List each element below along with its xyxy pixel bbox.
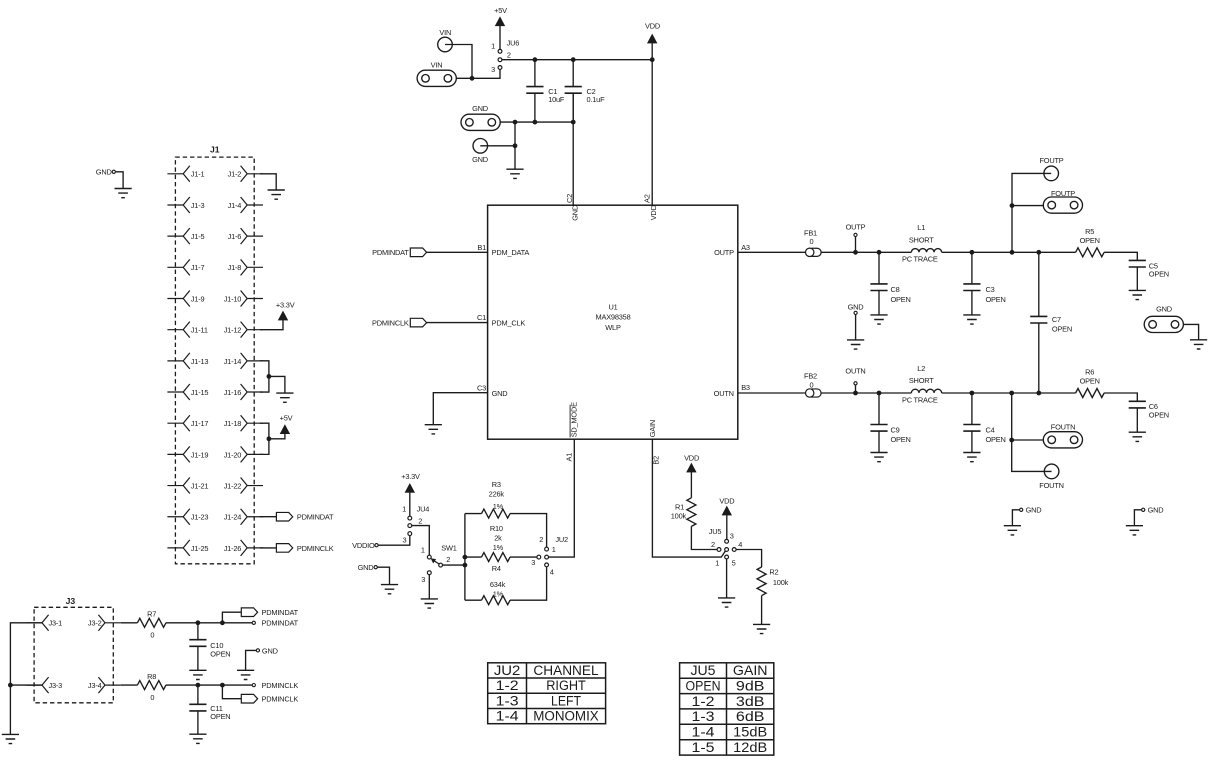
connector pin J1-5 xyxy=(167,228,204,244)
ground J3 xyxy=(2,734,19,743)
U1 pin A3 OUTP xyxy=(714,243,750,257)
resistor R1 100k xyxy=(671,498,717,550)
connector pin J1-2 xyxy=(228,166,263,182)
svg-text:PDMINDAT: PDMINDAT xyxy=(372,248,409,257)
svg-text:OPEN: OPEN xyxy=(1080,377,1100,386)
power arrow VDD R1 xyxy=(687,463,696,498)
svg-text:R6: R6 xyxy=(1085,368,1094,377)
ground J1 left xyxy=(115,189,132,198)
wire J3-1 J3-3 to ground xyxy=(10,623,42,735)
junction C11 xyxy=(196,683,201,688)
svg-text:1-5: 1-5 xyxy=(692,740,715,755)
ground C4 xyxy=(963,453,980,462)
power arrow VDD top xyxy=(645,22,660,60)
U1 pin C1 PDM_CLK xyxy=(477,313,525,327)
svg-text:SW1: SW1 xyxy=(441,543,457,552)
svg-text:226k: 226k xyxy=(489,490,505,499)
power arrow +3.3V JU4 xyxy=(405,484,414,517)
connector pin J1-6 xyxy=(228,228,263,244)
wire VDDIO to JU4 pin3 xyxy=(378,536,410,546)
junction C3 xyxy=(970,250,975,255)
svg-text:JU5: JU5 xyxy=(691,663,716,678)
svg-text:FB2: FB2 xyxy=(804,372,817,381)
svg-text:J3-2: J3-2 xyxy=(88,619,102,628)
U1 pin C2 GND top xyxy=(565,194,579,221)
power label +5V xyxy=(494,6,507,15)
power arrow +3.3V J1-12 xyxy=(276,301,295,321)
svg-text:3: 3 xyxy=(730,531,734,540)
ground J1-14/16 xyxy=(276,393,293,402)
svg-text:J1-24: J1-24 xyxy=(224,513,242,522)
junction PDMINDAT tag J3 xyxy=(220,620,225,625)
svg-text:GND: GND xyxy=(472,155,488,164)
svg-text:R1: R1 xyxy=(675,502,684,511)
svg-text:J1-14: J1-14 xyxy=(224,357,242,366)
svg-text:J1-1: J1-1 xyxy=(191,170,205,179)
svg-text:B1: B1 xyxy=(477,243,486,252)
node VDDIO xyxy=(352,541,378,550)
svg-text:GND: GND xyxy=(492,389,508,398)
svg-text:GND: GND xyxy=(1148,506,1164,515)
wire OUTN tp xyxy=(855,385,857,393)
svg-text:C4: C4 xyxy=(986,425,995,434)
resistor R8 0 xyxy=(121,672,166,702)
junction OUTP tp xyxy=(853,250,858,255)
junction VDD rail xyxy=(650,57,655,62)
svg-text:3: 3 xyxy=(531,558,535,567)
svg-text:MONOMIX: MONOMIX xyxy=(533,709,599,724)
svg-text:12dB: 12dB xyxy=(733,740,767,755)
svg-text:OPEN: OPEN xyxy=(891,435,911,444)
resistor R7 0 xyxy=(121,610,166,640)
wire U1 B3 to FB2 xyxy=(738,392,806,394)
svg-text:CHANNEL: CHANNEL xyxy=(533,663,598,678)
table JU2 CHANNEL xyxy=(488,663,606,724)
svg-text:VIN: VIN xyxy=(431,61,443,70)
connector pin J1-18 xyxy=(224,415,263,431)
svg-text:0: 0 xyxy=(810,380,814,389)
svg-text:C9: C9 xyxy=(891,425,900,434)
junction OUTN tp xyxy=(853,391,858,396)
svg-text:A3: A3 xyxy=(741,243,750,252)
junction C1 bottom xyxy=(533,120,538,125)
svg-text:GND: GND xyxy=(262,646,278,655)
ground GND bottom right xyxy=(1126,526,1143,535)
node PDMINDAT endpoint xyxy=(252,619,298,628)
connector pin J1-19 xyxy=(167,446,208,462)
svg-text:C7: C7 xyxy=(1052,315,1061,324)
capacitor C3 OPEN xyxy=(963,252,1005,315)
svg-text:2: 2 xyxy=(711,540,715,549)
wire L1 to R5 xyxy=(942,251,1076,253)
svg-text:C8: C8 xyxy=(891,285,900,294)
svg-text:5: 5 xyxy=(732,559,736,568)
junction GND pad xyxy=(513,120,518,125)
svg-text:1: 1 xyxy=(491,42,495,51)
wire GND rail xyxy=(500,93,573,205)
svg-text:PC TRACE: PC TRACE xyxy=(902,255,938,264)
svg-text:PDMINDAT: PDMINDAT xyxy=(297,513,334,522)
svg-text:J1-11: J1-11 xyxy=(191,326,208,335)
connector pin J1-11 xyxy=(167,322,207,338)
svg-text:J1-13: J1-13 xyxy=(191,357,209,366)
connector pin J1-8 xyxy=(228,259,263,275)
ground U1 C3 xyxy=(425,425,442,434)
svg-text:J1-22: J1-22 xyxy=(224,481,242,490)
junction C4 xyxy=(970,391,975,396)
power label VDD JU5 xyxy=(719,496,734,505)
junction C8 xyxy=(877,250,882,255)
svg-text:+3.3V: +3.3V xyxy=(276,301,295,310)
svg-text:4: 4 xyxy=(550,567,554,576)
test point GND bottom right xyxy=(1142,506,1164,515)
svg-text:1: 1 xyxy=(715,559,719,568)
junction FOUTN pad xyxy=(1009,438,1014,443)
node GND vddio area xyxy=(358,563,378,572)
junction C1 top xyxy=(533,57,538,62)
ground C3 xyxy=(963,315,980,324)
svg-text:J1-10: J1-10 xyxy=(224,294,242,303)
svg-text:JU6: JU6 xyxy=(507,38,520,47)
svg-text:4: 4 xyxy=(738,540,742,549)
IC U1 MAX98358 WLP xyxy=(488,205,738,439)
svg-text:R5: R5 xyxy=(1085,227,1094,236)
junction PDMINCLK tag J3 xyxy=(220,683,225,688)
svg-text:+5V: +5V xyxy=(494,6,507,15)
ground GND pad right xyxy=(1190,340,1207,349)
svg-text:PDM_DATA: PDM_DATA xyxy=(492,248,530,257)
svg-text:C2: C2 xyxy=(565,194,574,203)
jumper JU6 xyxy=(491,38,519,73)
svg-text:1-4: 1-4 xyxy=(692,725,716,740)
wire JU4 pin2 to SW1 xyxy=(412,526,430,556)
junction bus R10 xyxy=(463,555,468,560)
capacitor C6 OPEN xyxy=(1129,401,1169,432)
svg-text:PDMINCLK: PDMINCLK xyxy=(262,681,299,690)
svg-text:2: 2 xyxy=(539,535,543,544)
svg-text:PDM_CLK: PDM_CLK xyxy=(492,319,526,328)
svg-text:J1-25: J1-25 xyxy=(191,544,209,553)
ground vddio area xyxy=(381,585,398,594)
ground C11 xyxy=(189,734,206,743)
wire SW1 pin3 to ground xyxy=(428,575,430,599)
U1 pin B3 OUTN xyxy=(714,383,750,398)
wire GND bottom left xyxy=(1012,510,1019,526)
svg-text:1%: 1% xyxy=(493,543,504,552)
svg-text:J1-17: J1-17 xyxy=(191,419,209,428)
test point OUTN xyxy=(845,367,865,385)
ground top section xyxy=(506,169,523,178)
svg-text:A1: A1 xyxy=(565,453,574,462)
wire J1-2 to ground xyxy=(260,174,276,190)
svg-text:FOUTP: FOUTP xyxy=(1039,156,1063,165)
jumper JU5 xyxy=(709,527,742,568)
svg-text:C3: C3 xyxy=(477,383,486,392)
svg-text:3: 3 xyxy=(402,536,406,545)
svg-text:OPEN: OPEN xyxy=(1149,410,1169,419)
wire PDMINDAT to pin B1 xyxy=(427,251,488,253)
ground GND bottom left xyxy=(1004,526,1021,535)
connector J3 dashed box xyxy=(34,596,113,703)
svg-text:J1-15: J1-15 xyxy=(191,388,209,397)
connector pin J1-15 xyxy=(167,384,208,400)
svg-text:100k: 100k xyxy=(773,578,789,587)
connector pin J1-16 xyxy=(224,384,263,400)
capacitor C11 OPEN xyxy=(189,685,230,734)
svg-text:PC TRACE: PC TRACE xyxy=(902,395,938,404)
net tag PDMINCLK J1-26 xyxy=(276,544,333,553)
net tag PDMINCLK J3 xyxy=(241,694,298,703)
svg-text:100k: 100k xyxy=(671,512,687,521)
connector pin J1-21 xyxy=(167,478,208,494)
ground GND J3 area xyxy=(237,670,254,679)
ferrite bead FB2 0 xyxy=(804,372,821,398)
svg-text:PDMINCLK: PDMINCLK xyxy=(297,544,334,553)
ferrite bead FB1 0 xyxy=(804,228,821,256)
wire FOUTN branch xyxy=(1012,393,1052,471)
svg-text:OUTN: OUTN xyxy=(845,367,865,376)
resistor R5 OPEN xyxy=(1076,227,1105,257)
connector pin J3-1 xyxy=(26,615,62,631)
svg-text:10uF: 10uF xyxy=(548,95,565,104)
wire JU6 pin 2 to VDD rail xyxy=(502,59,652,61)
connector pin J1-1 xyxy=(167,166,204,182)
wire GND J3 area xyxy=(246,650,257,670)
capacitor C2 0.1uF xyxy=(565,60,605,122)
svg-text:GND: GND xyxy=(848,303,864,312)
svg-text:MAX98358: MAX98358 xyxy=(596,313,631,322)
svg-text:R3: R3 xyxy=(492,480,501,489)
svg-text:OPEN: OPEN xyxy=(1052,325,1072,334)
svg-text:1%: 1% xyxy=(493,502,504,511)
connector pin J1-22 xyxy=(224,478,263,494)
test point VIN xyxy=(438,28,453,52)
connector pin J1-10 xyxy=(224,291,263,307)
wire J1-12 to +3.3V xyxy=(260,320,283,330)
svg-text:OPEN: OPEN xyxy=(1149,269,1169,278)
svg-text:GND: GND xyxy=(1026,506,1042,515)
svg-text:0.1uF: 0.1uF xyxy=(587,95,606,104)
ground C9 xyxy=(870,453,887,462)
svg-text:A2: A2 xyxy=(642,194,651,203)
svg-text:OPEN: OPEN xyxy=(686,679,721,694)
junction FOUTP branch xyxy=(1010,250,1015,255)
inductor L2 SHORT PC TRACE xyxy=(902,364,942,405)
svg-text:J1-9: J1-9 xyxy=(191,294,205,303)
ground C5 xyxy=(1129,290,1146,299)
svg-text:J1-12: J1-12 xyxy=(224,326,242,335)
svg-text:0: 0 xyxy=(150,631,154,640)
pad GND top xyxy=(461,104,500,130)
svg-text:OPEN: OPEN xyxy=(986,295,1006,304)
svg-text:PDMINDAT: PDMINDAT xyxy=(262,619,299,628)
svg-text:VDD: VDD xyxy=(645,22,660,31)
wire SW1 pin2 to bus xyxy=(443,564,465,566)
junction bus SW1 xyxy=(463,563,468,568)
power arrow +5V xyxy=(495,17,504,49)
ground C6 xyxy=(1129,432,1146,441)
wire J1-24 to PDMINDAT tag xyxy=(260,516,277,518)
wire J1-14 J1-16 to ground xyxy=(260,361,285,393)
svg-text:0: 0 xyxy=(150,693,154,702)
wire GND bottom right xyxy=(1134,510,1141,526)
connector pin J3-3 xyxy=(26,677,62,693)
svg-text:J3: J3 xyxy=(66,596,76,606)
svg-text:L2: L2 xyxy=(917,364,925,373)
svg-text:U1: U1 xyxy=(608,303,617,312)
connector pin J1-14 xyxy=(224,353,263,369)
capacitor C5 OPEN xyxy=(1129,260,1169,290)
svg-text:J1-2: J1-2 xyxy=(228,170,242,179)
svg-text:VDDIO: VDDIO xyxy=(352,541,375,550)
svg-text:PDMINDAT: PDMINDAT xyxy=(262,608,299,617)
connector pin J1-3 xyxy=(167,197,204,213)
inductor L1 SHORT PC TRACE xyxy=(902,223,942,264)
ground GND outp tp xyxy=(847,340,864,349)
svg-text:FOUTN: FOUTN xyxy=(1039,481,1063,490)
wire GND test point to ground xyxy=(480,122,515,169)
svg-text:3dB: 3dB xyxy=(736,694,765,709)
connector pin J1-24 xyxy=(224,509,263,525)
connector pin J1-17 xyxy=(167,415,208,431)
svg-text:R2: R2 xyxy=(769,568,778,577)
wire U1 B2 GAIN to JU5 xyxy=(652,439,725,557)
net tag PDMINDAT J1-24 xyxy=(276,512,334,521)
svg-text:1-4: 1-4 xyxy=(496,709,520,724)
svg-text:1: 1 xyxy=(421,546,425,555)
connector pin J1-20 xyxy=(224,446,263,462)
svg-text:OUTN: OUTN xyxy=(714,389,734,398)
svg-text:GND: GND xyxy=(571,205,580,221)
connector pin J1-7 xyxy=(167,259,204,275)
svg-text:J3-1: J3-1 xyxy=(49,619,63,628)
jumper JU4 xyxy=(402,504,429,544)
svg-text:B3: B3 xyxy=(741,383,750,392)
svg-text:C3: C3 xyxy=(986,285,995,294)
net tag PDMINDAT J3 xyxy=(241,608,298,617)
svg-text:VDD: VDD xyxy=(719,496,734,505)
svg-text:SHORT: SHORT xyxy=(909,376,934,385)
svg-text:+5V: +5V xyxy=(280,414,293,423)
svg-text:L1: L1 xyxy=(917,223,925,232)
svg-text:J1-21: J1-21 xyxy=(191,481,209,490)
svg-text:J1-20: J1-20 xyxy=(224,450,242,459)
connector pin J1-9 xyxy=(167,291,204,307)
wire U1 GND pin C3 xyxy=(433,393,487,425)
wire GND outp tp xyxy=(855,315,857,340)
svg-text:0: 0 xyxy=(810,237,814,246)
svg-text:J1-16: J1-16 xyxy=(224,388,242,397)
U1 pin B2 GAIN bottom xyxy=(648,420,660,465)
svg-text:6dB: 6dB xyxy=(736,709,765,724)
pad FOUTP xyxy=(1043,189,1082,213)
ground R2 xyxy=(753,624,770,633)
svg-text:GAIN: GAIN xyxy=(648,420,657,437)
svg-text:C1: C1 xyxy=(477,313,486,322)
wire JU5 pin5 to ground xyxy=(726,559,728,598)
pad VIN xyxy=(417,61,456,87)
wire OUTP tp xyxy=(855,237,857,253)
power arrow VDD JU5 xyxy=(722,506,731,539)
wire GND vddio area xyxy=(377,567,389,584)
ground J1-2 xyxy=(268,190,285,199)
svg-text:J1-26: J1-26 xyxy=(224,544,242,553)
U1 pin A2 VDD top xyxy=(642,194,658,220)
svg-text:R4: R4 xyxy=(492,564,501,573)
svg-text:9dB: 9dB xyxy=(736,679,765,694)
svg-text:FOUTN: FOUTN xyxy=(1051,423,1075,432)
ground C10 xyxy=(189,670,206,679)
capacitor C9 OPEN xyxy=(870,393,910,453)
wire L2 to R6 xyxy=(942,392,1076,394)
svg-text:GND: GND xyxy=(96,168,112,177)
svg-text:PDMINCLK: PDMINCLK xyxy=(372,319,409,328)
junction C2 top xyxy=(571,57,576,62)
wire FOUTP pad xyxy=(1012,205,1043,207)
svg-text:2: 2 xyxy=(418,517,422,526)
power arrow +5V J1-18/20 xyxy=(280,414,293,434)
svg-text:15dB: 15dB xyxy=(733,725,767,740)
pad GND right xyxy=(1144,304,1183,332)
connector pin J3-4 xyxy=(88,677,121,693)
capacitor C4 OPEN xyxy=(963,393,1005,453)
svg-text:2k: 2k xyxy=(494,533,502,542)
svg-text:WLP: WLP xyxy=(605,323,621,332)
wire J1-18 J1-20 to +5V xyxy=(260,423,285,454)
resistor R10 2k 1% xyxy=(465,524,537,562)
capacitor C8 OPEN xyxy=(870,252,910,315)
wire R5 to C5 xyxy=(1104,252,1137,260)
svg-text:1-3: 1-3 xyxy=(692,709,715,724)
svg-text:1: 1 xyxy=(402,504,406,513)
svg-text:VDD: VDD xyxy=(649,205,658,220)
U1 pin B1 PDM_DATA xyxy=(477,243,529,257)
svg-text:R7: R7 xyxy=(147,610,156,619)
net tag PDMINCLK to U1 xyxy=(372,318,427,327)
wire VIN to JU6 pin 3 xyxy=(445,45,500,79)
connector pin J1-25 xyxy=(167,540,208,556)
svg-text:1%: 1% xyxy=(493,589,504,598)
connector pin J1-26 xyxy=(224,540,263,556)
wire FOUTP branch xyxy=(1012,173,1051,252)
node PDMINCLK endpoint xyxy=(252,681,298,690)
wire GND pad right xyxy=(1183,324,1198,339)
wire FB2 to L2 xyxy=(821,392,911,394)
wire U1 A3 to FB1 xyxy=(738,251,806,253)
test point GND outp xyxy=(848,303,864,315)
test point GND top xyxy=(472,139,488,164)
svg-text:1-2: 1-2 xyxy=(496,678,519,693)
wire GND J1 left xyxy=(115,172,123,189)
wire VDD to U1 pin A2 xyxy=(651,60,653,206)
junction C9 xyxy=(877,391,882,396)
connector pin J1-12 xyxy=(224,322,263,338)
svg-text:VIN: VIN xyxy=(439,28,451,37)
wire R6 to C6 xyxy=(1104,393,1137,401)
svg-text:+3.3V: +3.3V xyxy=(401,472,420,481)
test point GND J1 left xyxy=(96,168,116,177)
resistor R4 634k 1% xyxy=(465,564,547,605)
svg-text:OPEN: OPEN xyxy=(210,649,230,658)
junction FOUTP pad xyxy=(1010,203,1015,208)
svg-text:J1-4: J1-4 xyxy=(228,201,242,210)
U1 pin A1 SD_MODE bottom xyxy=(565,402,579,462)
svg-text:JU4: JU4 xyxy=(417,504,430,513)
ground C8 xyxy=(870,315,887,324)
connector pin J1-23 xyxy=(167,509,208,525)
svg-text:RIGHT: RIGHT xyxy=(546,678,586,693)
svg-text:JU2: JU2 xyxy=(555,535,568,544)
